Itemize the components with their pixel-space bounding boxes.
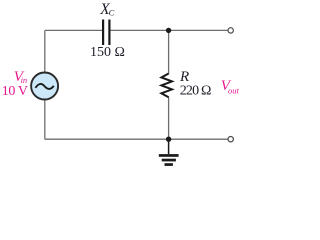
wire right vertical lower (resistor bottom to node B) bbox=[168, 97, 170, 139]
wire node A to top output terminal bbox=[169, 29, 228, 31]
svg-text:10 V: 10 V bbox=[2, 84, 28, 99]
resistor R zigzag bbox=[161, 74, 172, 98]
svg-text:150 Ω: 150 Ω bbox=[90, 45, 125, 60]
capacitor XC left plate bbox=[102, 20, 104, 46]
top output terminal bbox=[228, 28, 233, 33]
wire ground stub bbox=[168, 139, 170, 154]
source Vin circle bbox=[31, 73, 58, 100]
svg-text:XC: XC bbox=[99, 1, 114, 18]
wire right vertical upper (node A to resistor top) bbox=[168, 30, 170, 74]
ground bar 1 bbox=[159, 154, 179, 157]
ground bar 3 bbox=[165, 163, 173, 166]
capacitor XC right plate bbox=[108, 20, 110, 46]
svg-text:Vout: Vout bbox=[221, 78, 240, 95]
source Vin sine wave bbox=[35, 84, 53, 89]
wire node B to bottom output terminal bbox=[169, 138, 228, 140]
svg-text:Vin: Vin bbox=[14, 69, 27, 85]
wire left vertical upper (source top to top wire) bbox=[44, 30, 46, 72]
node B junction dot bbox=[166, 137, 171, 142]
wire top-right horizontal (capacitor to node A) bbox=[110, 29, 168, 31]
bottom output terminal bbox=[228, 137, 233, 142]
wire top-left horizontal (source to capacitor) bbox=[45, 29, 102, 31]
node A junction dot bbox=[166, 28, 171, 33]
wire left vertical lower (source bottom to bottom wire) bbox=[44, 100, 46, 139]
wire bottom horizontal (source to node B) bbox=[45, 138, 169, 140]
svg-text:220 Ω: 220 Ω bbox=[180, 83, 211, 98]
ground bar 2 bbox=[162, 159, 176, 162]
